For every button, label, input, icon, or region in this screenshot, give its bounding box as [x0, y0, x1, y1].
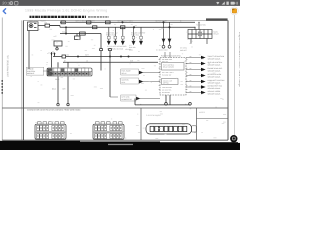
- svg-text:HOT AT ALL TIMES: HOT AT ALL TIMES: [117, 20, 134, 23]
- svg-text:IAB EGR VRIS: IAB EGR VRIS: [162, 58, 172, 61]
- svg-text:4X: 4X: [190, 85, 192, 88]
- svg-text:C-01 ECM 24-PIN: C-01 ECM 24-PIN: [146, 114, 161, 117]
- svg-text:4X: 4X: [190, 79, 192, 82]
- svg-text:4X: 4X: [190, 73, 192, 76]
- svg-text:VSS TEN FEN: VSS TEN FEN: [162, 86, 172, 89]
- svg-text:DATA LINK: DATA LINK: [122, 96, 131, 99]
- svg-text:RELAY: RELAY: [214, 33, 220, 36]
- svg-text:1999 Mazda Protege 1.6L DOHC E: 1999 Mazda Protege 1.6L DOHC Engine Wiri…: [25, 9, 107, 13]
- svg-text:ENGINE COMPART: ENGINE COMPART: [131, 31, 145, 34]
- svg-text:HOT IN START: HOT IN START: [155, 20, 168, 23]
- svg-text:FUEL PUMP: FUEL PUMP: [122, 70, 131, 73]
- svg-text:4X: 4X: [190, 67, 192, 70]
- svg-text:B/LG: B/LG: [52, 88, 57, 91]
- svg-text:B+: B+: [180, 20, 182, 23]
- svg-text:CONNECTOR IDENTIFICATION (VIE: CONNECTOR IDENTIFICATION (VIEWED FROM WI…: [27, 109, 81, 112]
- svg-text:THROTTLE POSITION: THROTTLE POSITION: [208, 55, 225, 58]
- svg-text:B/R: B/R: [63, 88, 67, 91]
- svg-text:NOTES: NOTES: [199, 111, 206, 114]
- svg-text:2 4: 2 4: [159, 44, 161, 47]
- svg-text:4X: 4X: [190, 90, 192, 93]
- svg-text:HOT IN ON OR START: HOT IN ON OR START: [75, 20, 95, 23]
- svg-text:TO IGNITION: TO IGNITION: [196, 23, 207, 26]
- svg-text:PCM CONTROL: PCM CONTROL: [163, 64, 174, 67]
- svg-text:MAIN FUEL INJ: MAIN FUEL INJ: [106, 31, 117, 34]
- svg-text:VEHICLE SPEED: VEHICLE SPEED: [208, 90, 222, 93]
- svg-text:MODULE: MODULE: [27, 72, 35, 75]
- svg-text:1999 PROTEGE 1.6L: 1999 PROTEGE 1.6L: [7, 54, 10, 77]
- svg-text:INJ 1 INJ 2 INJ 3: INJ 1 INJ 2 INJ 3: [162, 71, 174, 74]
- svg-text:ENGINE COOLANT: ENGINE COOLANT: [208, 67, 222, 70]
- svg-text:IGNITION: IGNITION: [122, 79, 130, 82]
- svg-text:KNOCK CKP: KNOCK CKP: [163, 79, 172, 82]
- svg-text:1 3: 1 3: [129, 44, 131, 47]
- svg-text:Engine Performance Circuits ·: Engine Performance Circuits · 1999 Prote…: [238, 32, 240, 87]
- svg-text:4X: 4X: [190, 61, 192, 64]
- svg-text:4X: 4X: [190, 55, 192, 58]
- svg-text:HEATED OXYGEN: HEATED OXYGEN: [208, 73, 222, 76]
- svg-text:2 4 G101 G102: 2 4 G101 G102: [156, 49, 168, 52]
- svg-text:A/T 4 E/C: A/T 4 E/C: [180, 47, 188, 50]
- svg-text:CRANKSHAFT POS: CRANKSHAFT POS: [208, 85, 223, 88]
- svg-text:POWERTRAIN CONTROL: POWERTRAIN CONTROL: [161, 55, 181, 58]
